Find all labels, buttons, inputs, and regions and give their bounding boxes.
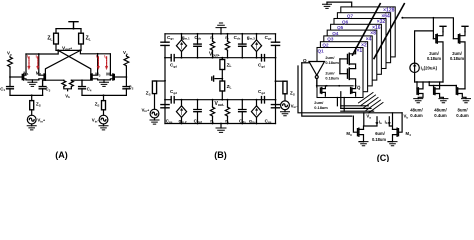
svg-text:48um/: 48um/ [434,108,447,113]
ground M4 [388,141,393,143]
svg-text:Ib: Ib [104,55,107,60]
svg-text:Vin+: Vin+ [141,107,149,113]
current arrow Ib diff [388,117,390,123]
svg-text:0.4um: 0.4um [456,113,469,118]
source Vin- (panel B right) [284,94,286,101]
svg-text:Q1: Q1 [318,48,325,53]
svg-text:M3: M3 [95,72,101,78]
svg-text:Va: Va [123,50,128,56]
wire cross-couple Vout+ to M3 gate [58,50,91,74]
svg-text:Q: Q [303,58,307,63]
current arrow Ia right (red) [97,57,99,70]
wire left gate line [164,34,166,124]
wire bus diagonal D2 [374,4,404,59]
current arrow Ib left (red) [37,57,39,70]
impedance ZL left [55,29,57,34]
svg-text:8um/: 8um/ [457,108,468,113]
svg-text:C1: C1 [0,86,5,92]
dependent source gm2 [181,100,183,124]
svg-text:0.18um: 0.18um [325,75,339,80]
svg-text:Ib: Ib [36,55,39,60]
wire bus rows to diff pair [341,106,374,111]
svg-text:Ia: Ia [27,55,30,60]
ground M1/M2 sources [31,80,33,82]
transistor M4 (panel C) [397,128,398,136]
svg-text:×1: ×1 [356,48,362,54]
wire top ground rail [165,33,276,35]
DAC cell box x2 [320,42,367,92]
ground below Vin- mid [103,124,105,126]
svg-text:(C): (C) [377,153,390,162]
resistor ro bottom-right [227,100,229,107]
ground bias NMOS2 [439,99,448,103]
resistor bias left [8,56,13,67]
svg-text:gm,2: gm,2 [179,118,187,124]
svg-text:ZS: ZS [95,102,100,108]
svg-text:gm,3: gm,3 [247,35,255,41]
wire M3 M4 sources [98,79,111,81]
DAC cell box x1 (front cell Q1) [317,48,363,98]
svg-text:Cds: Cds [194,35,201,41]
svg-text:Cgs: Cgs [265,35,272,41]
dependent source gm1 [181,34,183,58]
impedance ZS input left [31,95,33,100]
ground bias NMOS1 [414,99,423,103]
wire left gate node [9,68,11,87]
wire bundle to bias pair [359,93,384,113]
ground M3/M4 sources [103,80,105,82]
source Vin- mid [99,115,108,124]
resistor ro bottom-left [212,100,214,107]
ground below Vin+ (panel B left) [154,118,156,120]
svg-text:0.18um: 0.18um [314,105,328,110]
DAC cell box x128 [341,7,395,57]
resistor Vb left [62,80,66,87]
wire Vout- rail [165,99,276,101]
wire M3 gate to bias resistor [71,79,90,82]
capacitor Cds top-left [197,34,199,58]
svg-text:C3: C3 [45,87,50,93]
wire right gate line [275,34,277,124]
node: supply junction [73,28,75,30]
svg-text:ZL: ZL [86,36,91,42]
impedance ZL bottom (panel B) [220,81,225,91]
wire M1 M2 sources [26,79,39,81]
svg-text:48um/: 48um/ [410,108,423,113]
transistor switch row3 left [320,88,321,94]
capacitor C1 [7,87,14,89]
svg-text:×16: ×16 [372,25,381,31]
svg-text:Vb: Vb [404,114,409,120]
capacitor Cds bottom-right [241,100,243,124]
svg-text:Vout+: Vout+ [209,52,220,58]
svg-text:×4: ×4 [366,37,372,43]
capacitor Cgd top-left (series) [171,55,174,61]
wire Qbar bus vertical left [302,63,352,116]
wire bias gates [429,82,456,86]
wire M2 gate to bias resistor [43,79,64,82]
VDD supply symbol [69,22,78,29]
capacitor Cgd top-right (series) [262,55,265,61]
capacitor Cgs top-right [271,42,279,45]
wire mirror source rail [415,81,443,83]
svg-text:ro: ro [225,35,229,41]
svg-text:Cgd: Cgd [170,63,177,69]
capacitor Cgs top-left [161,42,169,45]
svg-text:Va: Va [7,51,12,57]
svg-text:M2: M2 [36,70,42,76]
capacitor Cgs bottom-left [161,105,169,108]
wire Vout rail [56,49,81,51]
wire bottom rail left [10,94,43,96]
svg-text:0.18um: 0.18um [450,56,464,61]
resistor bias right [124,55,129,66]
transistor M4 [110,54,113,80]
dependent source gm3 [256,34,258,58]
wire bus diagonal D1 [353,4,381,55]
svg-text:ZL: ZL [47,36,52,42]
supply T PMOS1 [440,26,446,31]
svg-text:ro: ro [210,35,214,41]
svg-text:Ia: Ia [379,119,382,125]
wire Vb node [389,113,392,130]
ground bottom center [220,124,222,129]
inverter U1 [302,62,310,64]
transistor bias NMOS 48um #2 [434,86,435,95]
DAC cell box x4 [324,36,372,86]
transistor PMOS1 mirror [436,34,437,43]
capacitor Cds top-right [241,34,243,58]
svg-text:0.18um: 0.18um [427,56,441,61]
svg-text:Q6: Q6 [342,19,349,24]
svg-text:Va: Va [366,114,371,120]
svg-text:M3: M3 [346,131,352,137]
svg-text:(B): (B) [214,150,227,160]
impedance ZS input left (panel B) [155,80,166,82]
wire inverter output [317,79,353,88]
transistor switch row3 right [351,88,352,94]
svg-text:0.4um: 0.4um [410,113,423,118]
capacitor Cgs bottom-right [271,105,279,108]
source Vin+ (panel B left) [154,94,156,110]
svg-text:Ia: Ia [96,55,99,60]
capacitor Cds2 bottom-left [197,100,199,124]
junction dots rails [164,33,276,125]
svg-text:Cgd: Cgd [170,89,177,95]
svg-text:6um/: 6um/ [375,131,385,136]
current arrow Ib right (red) [105,57,107,70]
ground below Vin- (panel B right) [284,110,286,112]
svg-text:Cds: Cds [234,35,241,41]
wire mirror gate bus [402,18,453,39]
supply T PMOS2 [462,26,468,31]
svg-text:0.4um: 0.4um [434,113,447,118]
svg-text:ZS: ZS [146,91,151,97]
svg-text:Q5: Q5 [337,25,344,30]
svg-text:gm,1: gm,1 [182,35,190,41]
svg-text:Cgd: Cgd [258,63,265,69]
tap to ground mid ZL [221,78,223,80]
svg-text:Vin-: Vin- [92,118,100,124]
svg-text:×32: ×32 [377,19,386,25]
capacitor C4 [79,80,86,89]
svg-text:Vb: Vb [65,93,70,99]
capacitor C2 [123,87,130,89]
svg-text:×128: ×128 [383,8,394,14]
wire Vb join [64,87,72,91]
wire Q bus vertical left [298,66,402,113]
svg-text:Q3: Q3 [327,37,334,42]
svg-text:Ib: Ib [385,119,388,125]
wire Va node [364,113,378,130]
svg-text:M4: M4 [406,131,412,137]
svg-text:Q7: Q7 [347,14,354,19]
capacitor C3 [39,80,46,89]
svg-text:ZS: ZS [290,91,295,97]
wire bottom ground rail [165,123,276,125]
transistor M3 [92,54,98,80]
svg-text:Q̅: Q̅ [357,85,361,90]
DAC cell box x8 [327,30,377,80]
resistor Vb right [69,80,73,87]
svg-text:M4: M4 [106,72,112,78]
ground top-left panel C [327,2,352,7]
wire supply rail [56,28,81,30]
source Vin+ left [27,115,36,124]
svg-text:Cgs: Cgs [167,35,174,41]
ground M3 [359,141,364,143]
impedance ZL right [80,29,82,34]
DAC cell box x64 [337,13,390,63]
wire Vout+ to M1/M2 drains [26,50,58,54]
transistor M1 [24,54,26,80]
svg-text:C4: C4 [87,87,92,93]
transistor M3 (panel C) [358,128,359,136]
svg-text:ZL: ZL [227,62,232,68]
dependent source gm4 [256,100,258,124]
svg-text:ZL: ZL [227,84,232,90]
DAC cell box x16 [331,24,382,74]
impedance ZS mid [103,95,105,100]
svg-text:Q2: Q2 [322,43,329,48]
impedance ZS input right (panel B) [276,80,286,82]
ground bias NMOS3 [462,99,471,103]
svg-text:(A): (A) [55,150,68,160]
svg-text:M1: M1 [23,70,29,76]
svg-text:C2: C2 [129,85,134,91]
svg-text:Ib(20uA): Ib(20uA) [421,66,438,72]
wire right gate node [125,67,127,87]
svg-text:0.18um: 0.18um [372,137,386,142]
current source Ib [415,31,434,63]
svg-text:Q4: Q4 [332,31,339,36]
node Vout+ [57,49,59,51]
wire cell gates [339,59,341,74]
svg-text:Cgd: Cgd [258,89,265,95]
capacitor Cgd bottom-left (series) [171,97,174,103]
capacitor Cgd bottom-right (series) [262,97,265,103]
wire Vout+ rail [165,57,276,59]
svg-text:0.18um: 0.18um [325,60,339,65]
svg-text:Vin-: Vin- [291,103,299,109]
svg-text:×64: ×64 [381,13,390,19]
AC ground top center [220,28,222,34]
node D2 to mirror wire [401,17,403,19]
current arrow Ia diff [376,117,378,123]
transistor cell row1 [348,53,350,64]
svg-text:×8: ×8 [370,31,376,37]
ground below Vin+ [31,124,33,126]
svg-text:×2: ×2 [361,42,367,48]
current arrow Ia left (red) [28,57,30,70]
wire Vout- to M3/M4 drains [80,50,110,53]
transistor M2 [39,54,44,80]
svg-text:Vin+: Vin+ [37,118,45,124]
svg-text:ZS: ZS [36,102,41,108]
transistor bias NMOS 8um [456,86,457,95]
resistor ro top-left [212,34,214,41]
transistor PMOS2 mirror [458,34,459,43]
DAC cell box x32 [334,19,386,69]
resistor ro top-right [227,34,229,41]
svg-text:Vout-: Vout- [215,101,225,107]
transistor bias NMOS 48um #1 [416,82,418,88]
transistor cell row2 [348,68,350,79]
impedance ZL top (panel B) [221,58,223,60]
wire bottom rail right [82,94,126,96]
wire cross-couple Vout- to M2 gate [45,50,80,74]
node Vout- [79,49,81,51]
